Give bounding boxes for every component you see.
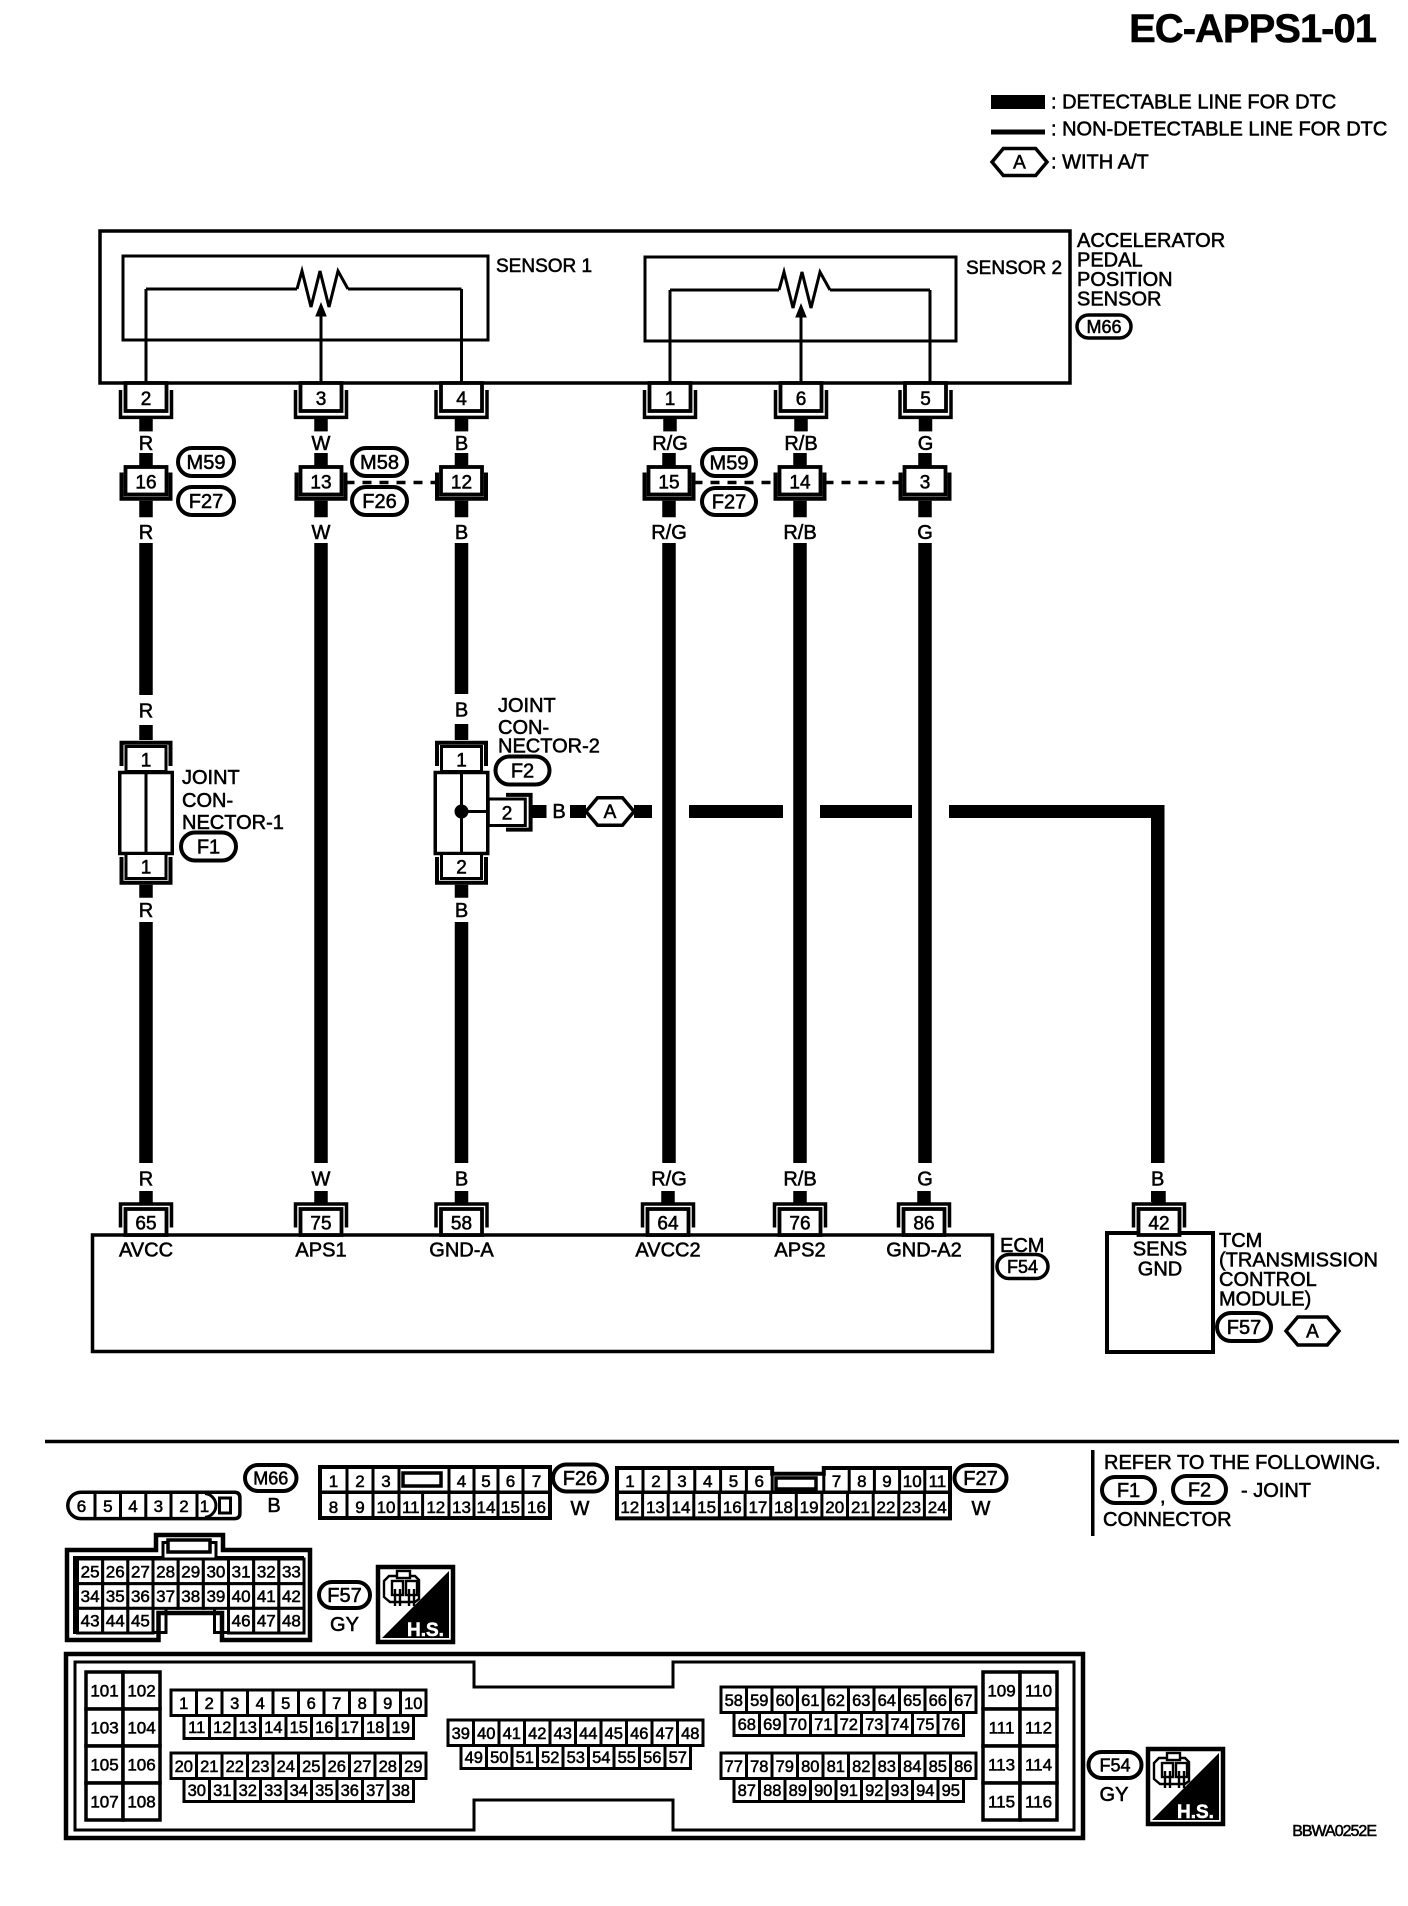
svg-text:GY: GY bbox=[1100, 1784, 1129, 1806]
svg-text:45: 45 bbox=[131, 1612, 150, 1631]
svg-text:110: 110 bbox=[1025, 1682, 1052, 1701]
svg-text:W: W bbox=[312, 522, 331, 544]
svg-text:36: 36 bbox=[341, 1782, 359, 1800]
svg-text:1: 1 bbox=[665, 389, 676, 410]
svg-text:EC-APPS1-01: EC-APPS1-01 bbox=[1129, 7, 1377, 51]
svg-text:52: 52 bbox=[541, 1749, 559, 1767]
svg-text:2: 2 bbox=[456, 858, 467, 879]
svg-text:4: 4 bbox=[457, 1472, 466, 1491]
svg-text:43: 43 bbox=[554, 1725, 572, 1743]
svg-text:3: 3 bbox=[154, 1497, 163, 1516]
svg-text:46: 46 bbox=[630, 1725, 648, 1743]
svg-text:R: R bbox=[139, 522, 153, 544]
svg-text:A: A bbox=[1013, 152, 1026, 173]
svg-text:APS2: APS2 bbox=[774, 1240, 825, 1262]
svg-text:37: 37 bbox=[156, 1587, 175, 1606]
svg-text:38: 38 bbox=[392, 1782, 410, 1800]
svg-text:59: 59 bbox=[750, 1692, 768, 1710]
svg-text:78: 78 bbox=[750, 1758, 768, 1776]
svg-text:8: 8 bbox=[329, 1498, 338, 1517]
svg-text:G: G bbox=[918, 433, 934, 455]
svg-text:2: 2 bbox=[179, 1497, 188, 1516]
svg-text:1: 1 bbox=[625, 1472, 634, 1491]
svg-text:7: 7 bbox=[532, 1472, 541, 1491]
svg-text:5: 5 bbox=[920, 389, 931, 410]
svg-text:F27: F27 bbox=[963, 1468, 997, 1490]
svg-text:107: 107 bbox=[90, 1793, 118, 1812]
svg-text:54: 54 bbox=[592, 1749, 610, 1767]
svg-text:94: 94 bbox=[916, 1782, 934, 1800]
svg-text:H.S.: H.S. bbox=[1177, 1802, 1214, 1823]
svg-text:111: 111 bbox=[989, 1719, 1015, 1738]
svg-text:12: 12 bbox=[451, 473, 472, 494]
svg-text:13: 13 bbox=[452, 1498, 471, 1517]
svg-text:F57: F57 bbox=[327, 1585, 361, 1607]
svg-text:19: 19 bbox=[392, 1719, 410, 1737]
svg-text:12: 12 bbox=[426, 1498, 445, 1517]
svg-text:75: 75 bbox=[310, 1214, 331, 1235]
svg-text:90: 90 bbox=[814, 1782, 832, 1800]
svg-text:6: 6 bbox=[506, 1472, 515, 1491]
svg-text:61: 61 bbox=[801, 1692, 819, 1710]
svg-text:65: 65 bbox=[903, 1692, 921, 1710]
svg-text:M59: M59 bbox=[710, 453, 749, 475]
svg-text:SENSOR: SENSOR bbox=[1077, 289, 1161, 311]
svg-text:24: 24 bbox=[277, 1758, 295, 1776]
svg-text:GND: GND bbox=[1138, 1259, 1182, 1281]
svg-text:F1: F1 bbox=[197, 837, 220, 859]
svg-text:91: 91 bbox=[840, 1782, 858, 1800]
svg-text:- JOINT: - JOINT bbox=[1241, 1480, 1311, 1502]
svg-text:101: 101 bbox=[90, 1682, 118, 1701]
svg-text:104: 104 bbox=[127, 1719, 155, 1738]
svg-text:89: 89 bbox=[789, 1782, 807, 1800]
svg-text:JOINT: JOINT bbox=[498, 695, 556, 717]
svg-text:88: 88 bbox=[763, 1782, 781, 1800]
svg-text:72: 72 bbox=[840, 1716, 858, 1734]
svg-text:103: 103 bbox=[90, 1719, 118, 1738]
svg-text:B: B bbox=[552, 801, 565, 823]
svg-text:65: 65 bbox=[135, 1214, 156, 1235]
svg-text:5: 5 bbox=[281, 1695, 290, 1713]
svg-text:10: 10 bbox=[377, 1498, 396, 1517]
svg-text:G: G bbox=[917, 522, 933, 544]
svg-text:36: 36 bbox=[131, 1587, 150, 1606]
svg-text:AVCC2: AVCC2 bbox=[635, 1240, 700, 1262]
svg-text:17: 17 bbox=[341, 1719, 359, 1737]
svg-text:R/G: R/G bbox=[652, 433, 688, 455]
svg-text:16: 16 bbox=[723, 1498, 742, 1517]
svg-text:W: W bbox=[571, 1498, 590, 1520]
svg-text:102: 102 bbox=[127, 1682, 155, 1701]
svg-text:: DETECTABLE LINE FOR DTC: : DETECTABLE LINE FOR DTC bbox=[1051, 92, 1336, 114]
svg-text:3: 3 bbox=[230, 1695, 239, 1713]
svg-text:22: 22 bbox=[877, 1498, 896, 1517]
svg-text:7: 7 bbox=[332, 1695, 341, 1713]
svg-text:W: W bbox=[312, 1169, 331, 1191]
svg-text:47: 47 bbox=[656, 1725, 674, 1743]
svg-text:79: 79 bbox=[776, 1758, 794, 1776]
svg-text:F27: F27 bbox=[189, 491, 223, 513]
svg-text:R/G: R/G bbox=[651, 1169, 687, 1191]
svg-text:M58: M58 bbox=[360, 452, 399, 474]
svg-text:71: 71 bbox=[814, 1716, 832, 1734]
svg-text:SENSOR 2: SENSOR 2 bbox=[966, 258, 1062, 279]
svg-text:3: 3 bbox=[677, 1472, 686, 1491]
svg-text:42: 42 bbox=[528, 1725, 546, 1743]
svg-text:13: 13 bbox=[310, 473, 331, 494]
svg-text:69: 69 bbox=[763, 1716, 781, 1734]
svg-text:77: 77 bbox=[725, 1758, 743, 1776]
svg-text:9: 9 bbox=[355, 1498, 364, 1517]
svg-text:M59: M59 bbox=[187, 452, 226, 474]
svg-text:4: 4 bbox=[456, 389, 467, 410]
svg-text:6: 6 bbox=[307, 1695, 316, 1713]
svg-text:24: 24 bbox=[928, 1498, 947, 1517]
svg-text:9: 9 bbox=[383, 1695, 392, 1713]
svg-text:27: 27 bbox=[353, 1758, 371, 1776]
svg-text:116: 116 bbox=[1025, 1793, 1052, 1812]
svg-text:4: 4 bbox=[256, 1695, 265, 1713]
svg-text:76: 76 bbox=[942, 1716, 960, 1734]
svg-text:27: 27 bbox=[131, 1562, 150, 1581]
svg-text:39: 39 bbox=[206, 1587, 225, 1606]
svg-text:14: 14 bbox=[264, 1719, 282, 1737]
svg-text:55: 55 bbox=[618, 1749, 636, 1767]
svg-text:106: 106 bbox=[127, 1756, 155, 1775]
svg-text:18: 18 bbox=[366, 1719, 384, 1737]
svg-text:2: 2 bbox=[205, 1695, 214, 1713]
svg-text:109: 109 bbox=[987, 1682, 1015, 1701]
svg-text:NECTOR-2: NECTOR-2 bbox=[498, 736, 600, 758]
svg-text:51: 51 bbox=[516, 1749, 534, 1767]
svg-text:50: 50 bbox=[490, 1749, 508, 1767]
svg-text:14: 14 bbox=[789, 473, 811, 494]
svg-text:R/B: R/B bbox=[784, 433, 817, 455]
svg-text:31: 31 bbox=[213, 1782, 231, 1800]
svg-text:16: 16 bbox=[135, 473, 156, 494]
svg-text:1: 1 bbox=[200, 1497, 209, 1516]
svg-text:F2: F2 bbox=[1188, 1480, 1211, 1502]
svg-text:76: 76 bbox=[789, 1214, 810, 1235]
svg-text:67: 67 bbox=[954, 1692, 972, 1710]
svg-text:F27: F27 bbox=[712, 492, 746, 514]
svg-text:1: 1 bbox=[141, 751, 152, 772]
svg-text:GND-A2: GND-A2 bbox=[886, 1240, 962, 1262]
svg-text:BBWA0252E: BBWA0252E bbox=[1292, 1823, 1376, 1840]
svg-text:M66: M66 bbox=[253, 1468, 288, 1488]
svg-text:R: R bbox=[139, 433, 153, 455]
svg-text:75: 75 bbox=[916, 1716, 934, 1734]
svg-text:73: 73 bbox=[865, 1716, 883, 1734]
svg-text:GY: GY bbox=[330, 1614, 359, 1636]
svg-text:B: B bbox=[1151, 1169, 1164, 1191]
svg-text:15: 15 bbox=[501, 1498, 520, 1517]
svg-text:11: 11 bbox=[402, 1498, 420, 1517]
svg-text:W: W bbox=[972, 1498, 991, 1520]
svg-text:AVCC: AVCC bbox=[119, 1240, 173, 1262]
svg-text:35: 35 bbox=[106, 1587, 125, 1606]
svg-text:81: 81 bbox=[827, 1758, 845, 1776]
svg-text:74: 74 bbox=[891, 1716, 909, 1734]
svg-text:58: 58 bbox=[451, 1214, 472, 1235]
svg-text:6: 6 bbox=[77, 1497, 86, 1516]
svg-text:8: 8 bbox=[857, 1472, 866, 1491]
svg-text:F1: F1 bbox=[1117, 1480, 1140, 1502]
svg-text:JOINT: JOINT bbox=[182, 767, 240, 789]
svg-text:28: 28 bbox=[379, 1758, 397, 1776]
svg-text:2: 2 bbox=[141, 389, 152, 410]
svg-text:: NON-DETECTABLE LINE FOR DTC: : NON-DETECTABLE LINE FOR DTC bbox=[1051, 119, 1387, 141]
svg-text:80: 80 bbox=[801, 1758, 819, 1776]
svg-text:13: 13 bbox=[646, 1498, 665, 1517]
svg-text:F57: F57 bbox=[1227, 1317, 1261, 1339]
svg-text:22: 22 bbox=[226, 1758, 244, 1776]
svg-text:86: 86 bbox=[913, 1214, 934, 1235]
svg-text:SENS: SENS bbox=[1133, 1239, 1187, 1261]
svg-text:M66: M66 bbox=[1086, 317, 1121, 337]
svg-text:12: 12 bbox=[620, 1498, 639, 1517]
svg-text:33: 33 bbox=[264, 1782, 282, 1800]
svg-text:83: 83 bbox=[878, 1758, 896, 1776]
svg-text:82: 82 bbox=[852, 1758, 870, 1776]
svg-text:56: 56 bbox=[643, 1749, 661, 1767]
svg-text:37: 37 bbox=[366, 1782, 384, 1800]
svg-text:19: 19 bbox=[800, 1498, 819, 1517]
svg-text:B: B bbox=[455, 522, 468, 544]
svg-text:12: 12 bbox=[213, 1719, 231, 1737]
svg-text:4: 4 bbox=[703, 1472, 712, 1491]
svg-text:5: 5 bbox=[481, 1472, 490, 1491]
svg-text:B: B bbox=[455, 1169, 468, 1191]
svg-text:45: 45 bbox=[605, 1725, 623, 1743]
svg-text:5: 5 bbox=[729, 1472, 738, 1491]
svg-text:23: 23 bbox=[251, 1758, 269, 1776]
svg-text:68: 68 bbox=[738, 1716, 756, 1734]
svg-text:8: 8 bbox=[358, 1695, 367, 1713]
svg-text:MODULE): MODULE) bbox=[1219, 1289, 1311, 1311]
svg-text:3: 3 bbox=[920, 473, 931, 494]
svg-text:34: 34 bbox=[290, 1782, 308, 1800]
svg-text:F26: F26 bbox=[362, 491, 396, 513]
svg-text:64: 64 bbox=[657, 1214, 679, 1235]
svg-text:4: 4 bbox=[128, 1497, 137, 1516]
svg-text:H.S.: H.S. bbox=[407, 1620, 444, 1641]
svg-text:53: 53 bbox=[567, 1749, 585, 1767]
svg-text:14: 14 bbox=[477, 1498, 496, 1517]
svg-text:G: G bbox=[917, 1169, 933, 1191]
svg-text:115: 115 bbox=[988, 1793, 1015, 1812]
svg-text:2: 2 bbox=[502, 804, 513, 825]
svg-text:11: 11 bbox=[929, 1472, 947, 1491]
svg-text:11: 11 bbox=[188, 1719, 205, 1737]
svg-text:66: 66 bbox=[929, 1692, 947, 1710]
svg-text:A: A bbox=[604, 802, 617, 823]
svg-text:16: 16 bbox=[527, 1498, 546, 1517]
svg-text:44: 44 bbox=[106, 1612, 125, 1631]
svg-text:20: 20 bbox=[175, 1758, 193, 1776]
svg-text:SENSOR 1: SENSOR 1 bbox=[496, 256, 592, 277]
svg-text:34: 34 bbox=[81, 1587, 100, 1606]
svg-text:114: 114 bbox=[1025, 1756, 1052, 1775]
svg-text:108: 108 bbox=[127, 1793, 155, 1812]
svg-text:20: 20 bbox=[825, 1498, 844, 1517]
svg-text:1: 1 bbox=[179, 1695, 188, 1713]
svg-text:85: 85 bbox=[929, 1758, 947, 1776]
svg-text:9: 9 bbox=[882, 1472, 891, 1491]
svg-text:87: 87 bbox=[738, 1782, 756, 1800]
svg-text:2: 2 bbox=[651, 1472, 660, 1491]
svg-text:R: R bbox=[139, 701, 153, 723]
svg-text:26: 26 bbox=[328, 1758, 346, 1776]
svg-text:A: A bbox=[1306, 1321, 1319, 1342]
svg-text:93: 93 bbox=[891, 1782, 909, 1800]
svg-text:105: 105 bbox=[90, 1756, 118, 1775]
svg-text:7: 7 bbox=[832, 1472, 841, 1491]
svg-text:10: 10 bbox=[903, 1472, 922, 1491]
svg-text:15: 15 bbox=[290, 1719, 308, 1737]
svg-text:113: 113 bbox=[988, 1756, 1015, 1775]
svg-text:86: 86 bbox=[954, 1758, 972, 1776]
svg-text:33: 33 bbox=[282, 1562, 301, 1581]
svg-text:28: 28 bbox=[156, 1562, 175, 1581]
svg-text:70: 70 bbox=[789, 1716, 807, 1734]
svg-text:5: 5 bbox=[103, 1497, 112, 1516]
svg-text:3: 3 bbox=[316, 389, 327, 410]
svg-text:26: 26 bbox=[106, 1562, 125, 1581]
svg-text:25: 25 bbox=[81, 1562, 100, 1581]
svg-text:1: 1 bbox=[329, 1472, 338, 1491]
svg-text:,: , bbox=[1160, 1486, 1166, 1508]
svg-text:60: 60 bbox=[776, 1692, 794, 1710]
svg-text:41: 41 bbox=[257, 1587, 276, 1606]
svg-text:14: 14 bbox=[672, 1498, 691, 1517]
svg-text:13: 13 bbox=[239, 1719, 257, 1737]
svg-text:CONNECTOR: CONNECTOR bbox=[1103, 1509, 1232, 1531]
svg-text:21: 21 bbox=[200, 1758, 218, 1776]
svg-text:48: 48 bbox=[681, 1725, 699, 1743]
svg-text:84: 84 bbox=[903, 1758, 921, 1776]
svg-text:21: 21 bbox=[851, 1498, 870, 1517]
svg-text:25: 25 bbox=[302, 1758, 320, 1776]
svg-text:18: 18 bbox=[774, 1498, 793, 1517]
svg-text:32: 32 bbox=[257, 1562, 276, 1581]
svg-text:10: 10 bbox=[404, 1695, 422, 1713]
svg-text:1: 1 bbox=[141, 858, 152, 879]
svg-text:58: 58 bbox=[725, 1692, 743, 1710]
svg-text:42: 42 bbox=[282, 1587, 301, 1606]
svg-text:B: B bbox=[455, 900, 468, 922]
svg-text:R: R bbox=[139, 1169, 153, 1191]
svg-text:F2: F2 bbox=[511, 761, 534, 783]
svg-text:F54: F54 bbox=[1099, 1755, 1130, 1775]
svg-text:29: 29 bbox=[404, 1758, 422, 1776]
svg-text:16: 16 bbox=[315, 1719, 333, 1737]
svg-text:39: 39 bbox=[452, 1725, 470, 1743]
svg-text:23: 23 bbox=[902, 1498, 921, 1517]
svg-text:1: 1 bbox=[456, 751, 467, 772]
svg-text:6: 6 bbox=[754, 1472, 763, 1491]
svg-text:35: 35 bbox=[315, 1782, 333, 1800]
svg-text:92: 92 bbox=[865, 1782, 883, 1800]
svg-text:R/B: R/B bbox=[783, 1169, 816, 1191]
svg-text:F54: F54 bbox=[1007, 1257, 1038, 1277]
svg-text:3: 3 bbox=[381, 1472, 390, 1491]
svg-text:32: 32 bbox=[239, 1782, 257, 1800]
svg-text:CON-: CON- bbox=[182, 790, 233, 812]
svg-text:40: 40 bbox=[232, 1587, 251, 1606]
svg-text:57: 57 bbox=[669, 1749, 687, 1767]
svg-text:30: 30 bbox=[206, 1562, 225, 1581]
svg-text:B: B bbox=[455, 433, 468, 455]
svg-text:17: 17 bbox=[748, 1498, 767, 1517]
svg-text:GND-A: GND-A bbox=[429, 1240, 494, 1262]
svg-text:6: 6 bbox=[796, 389, 807, 410]
svg-text:41: 41 bbox=[503, 1725, 521, 1743]
svg-text:49: 49 bbox=[465, 1749, 483, 1767]
svg-text:: WITH A/T: : WITH A/T bbox=[1051, 152, 1149, 174]
svg-text:29: 29 bbox=[181, 1562, 200, 1581]
svg-text:48: 48 bbox=[282, 1612, 301, 1631]
svg-text:44: 44 bbox=[579, 1725, 597, 1743]
svg-text:95: 95 bbox=[942, 1782, 960, 1800]
svg-text:2: 2 bbox=[355, 1472, 364, 1491]
svg-text:31: 31 bbox=[232, 1562, 251, 1581]
svg-text:R/B: R/B bbox=[783, 522, 816, 544]
svg-text:W: W bbox=[312, 433, 331, 455]
svg-text:46: 46 bbox=[232, 1612, 251, 1631]
svg-text:B: B bbox=[267, 1495, 280, 1517]
svg-text:112: 112 bbox=[1025, 1719, 1052, 1738]
svg-text:64: 64 bbox=[878, 1692, 896, 1710]
svg-text:F26: F26 bbox=[563, 1468, 597, 1490]
svg-text:38: 38 bbox=[181, 1587, 200, 1606]
svg-text:42: 42 bbox=[1148, 1214, 1169, 1235]
svg-text:15: 15 bbox=[697, 1498, 716, 1517]
svg-text:R/G: R/G bbox=[651, 522, 687, 544]
svg-text:30: 30 bbox=[188, 1782, 206, 1800]
svg-text:63: 63 bbox=[852, 1692, 870, 1710]
svg-text:47: 47 bbox=[257, 1612, 276, 1631]
svg-text:B: B bbox=[455, 700, 468, 722]
svg-text:40: 40 bbox=[477, 1725, 495, 1743]
svg-text:43: 43 bbox=[81, 1612, 100, 1631]
svg-text:APS1: APS1 bbox=[295, 1240, 346, 1262]
svg-text:R: R bbox=[139, 900, 153, 922]
svg-text:REFER TO THE FOLLOWING.: REFER TO THE FOLLOWING. bbox=[1104, 1452, 1381, 1474]
svg-text:15: 15 bbox=[658, 473, 679, 494]
svg-text:62: 62 bbox=[827, 1692, 845, 1710]
